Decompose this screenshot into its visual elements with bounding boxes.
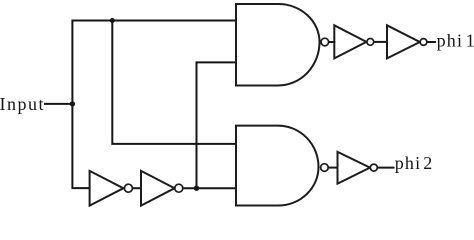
svg-text:phi: phi: [395, 153, 422, 173]
svg-text:1: 1: [466, 30, 474, 50]
svg-text:Input: Input: [0, 94, 45, 114]
svg-text:phi: phi: [437, 30, 464, 50]
svg-text:2: 2: [423, 153, 433, 173]
